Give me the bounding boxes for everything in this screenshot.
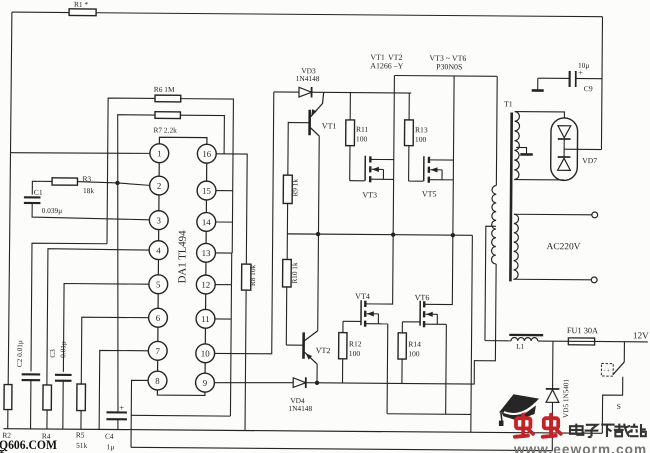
resistor R9: [283, 175, 292, 203]
node bus/VT3-VT4: [391, 232, 395, 236]
transistor VT4 (MOSFET): [361, 300, 393, 327]
wire VT3 gate lead: [350, 180, 365, 182]
IC pin 7: [148, 341, 167, 360]
wire R6 left to line A: [107, 98, 155, 244]
IC pin 2: [150, 176, 169, 195]
svg-text:12V: 12V: [633, 330, 649, 340]
wire pin 13 stub: [215, 252, 232, 254]
IC pin 12: [196, 275, 215, 294]
wire pin 12 stub: [215, 284, 231, 286]
resistor R4: [43, 385, 52, 410]
svg-text:VD7: VD7: [582, 156, 597, 165]
svg-text:0.01μ: 0.01μ: [58, 341, 67, 358]
IC pin 8: [148, 371, 167, 390]
wire left rail down to R2: [8, 12, 12, 384]
resistor R13: [404, 120, 413, 146]
op-amp/PWM IC DA1 TL494 body: [157, 137, 207, 395]
switch S plug symbol: [601, 364, 613, 377]
wire secondary top lead: [514, 213, 592, 216]
node bus/VT1-VT2: [316, 232, 320, 236]
svg-text:14: 14: [202, 217, 211, 227]
svg-text:15: 15: [202, 186, 211, 196]
wire top rail left segment: [12, 11, 69, 13]
wire switch bottom to ground rail: [602, 377, 622, 434]
T1 feedback winding: [514, 112, 519, 180]
svg-text:R1 *: R1 *: [74, 0, 89, 9]
diode VD5: [546, 389, 560, 403]
wire pin 14 stub: [216, 221, 233, 223]
svg-text:VT1: VT1: [322, 122, 337, 131]
watermark partial glyph bottom-left corner: [0, 451, 4, 453]
svg-text:www.eeworm.com: www.eeworm.com: [513, 442, 647, 453]
svg-text:R11: R11: [356, 125, 369, 134]
wire pin1 to left rail: [10, 152, 150, 153]
svg-text:VT5: VT5: [422, 190, 437, 199]
wire secondary bottom lead: [513, 278, 591, 281]
svg-text:11: 11: [201, 314, 210, 324]
ground at T1 tap: [520, 153, 532, 156]
wire VT1 collector slant: [310, 127, 319, 136]
svg-text:VD5 1N5401: VD5 1N5401: [562, 379, 570, 418]
watermark graduation cap: [499, 394, 539, 426]
capacitor C3: [55, 375, 72, 381]
svg-text:R14: R14: [408, 340, 421, 349]
svg-text:2: 2: [157, 181, 161, 191]
IC pin 11: [196, 309, 215, 328]
IC pin 13: [197, 243, 216, 262]
transistor VT2 (PNP): [302, 332, 305, 358]
wire 12V line down to VD5: [552, 341, 554, 389]
wire pins 13-12-11 tie down to rail H: [230, 253, 231, 416]
T1 secondary winding AC220V: [513, 214, 518, 279]
wire R7 right down to pin16 wire: [180, 115, 224, 154]
watermark text dian zi xia zai zhan: [570, 424, 646, 437]
switch S blade: [613, 362, 624, 375]
svg-text:10: 10: [201, 348, 210, 358]
T1 primary winding: [491, 185, 496, 263]
wire pin 6 to R5: [81, 317, 148, 384]
resistor R12: [339, 333, 347, 359]
svg-text:6: 6: [156, 313, 161, 323]
wire VT4 source down: [386, 324, 389, 414]
resistor R2: [4, 385, 12, 410]
transformer T1 core: [510, 113, 511, 282]
svg-text:R5: R5: [76, 430, 85, 439]
wire R2 bottom to ground rail: [7, 410, 9, 429]
wire C2 bottom to ground rail: [30, 380, 32, 429]
inductor L1: [511, 337, 538, 341]
IC pin 10: [196, 344, 215, 363]
wire R8 bottom to ground rail: [245, 290, 246, 430]
ground at C9: [532, 89, 544, 92]
wire center bus down to ground rail: [471, 235, 473, 432]
wire pin 15 stub: [216, 190, 233, 192]
wire R3 to pin 2: [77, 182, 150, 186]
wire C9 ground stem: [537, 78, 539, 89]
wire C9 to right rail: [538, 77, 602, 80]
wire VT1 emitter from VD3 rail: [310, 92, 323, 117]
svg-text:R13: R13: [415, 125, 428, 134]
svg-text:+: +: [119, 404, 124, 413]
wire VT1 collector down to center bus: [317, 136, 320, 234]
svg-text:C2 0.01μ: C2 0.01μ: [15, 340, 24, 367]
wire R10 bottom to VT2 base: [285, 287, 287, 345]
resistor R1: [69, 9, 96, 16]
wire R13 top lead (rail end): [408, 93, 410, 120]
capacitor C9: [570, 71, 576, 87]
wire primary center tap down to L1 feed: [485, 226, 496, 340]
svg-text:C4: C4: [105, 432, 114, 441]
svg-text:1: 1: [157, 148, 161, 158]
VD7 lower diode: [558, 157, 571, 170]
transistor VT1 (PNP): [308, 110, 311, 135]
wire VT6 gate to R14: [402, 321, 420, 323]
wire R14 bottom to VD4 rail: [401, 359, 403, 383]
transistor VT3 (MOSFET): [365, 156, 394, 183]
capacitor C4: [106, 412, 127, 419]
wire VT2 emitter down to VD4 rail: [316, 364, 318, 383]
resistor R8: [242, 264, 251, 290]
svg-text:VT4: VT4: [355, 292, 370, 301]
wire VT1 base down to R9: [287, 122, 289, 175]
wire R3 left to C1: [32, 181, 52, 195]
svg-text:1N4148: 1N4148: [288, 404, 312, 413]
resistor R3: [52, 178, 77, 185]
svg-text:12: 12: [201, 280, 210, 290]
resistor R14: [398, 333, 406, 359]
svg-text:C3: C3: [48, 349, 57, 358]
wire VT3-VT4 vertical: [393, 76, 395, 305]
wire R4 bottom to ground rail: [46, 410, 48, 429]
wire R13 bottom to VT5 gate: [408, 146, 410, 181]
wire pin 10 up to VD3 rail: [215, 92, 274, 354]
wire center bus: [287, 234, 472, 235]
wire feed to L1: [485, 340, 511, 342]
node VD4 rail/VT2: [315, 381, 319, 385]
svg-text:C1: C1: [34, 188, 43, 197]
svg-text:51k: 51k: [76, 441, 87, 450]
IC pin 14: [197, 212, 216, 231]
wire winding bottom to VD7: [514, 179, 564, 181]
resistor R10: [283, 259, 292, 287]
wire R6 right down pins 15-14-13 tie: [179, 99, 233, 253]
svg-text:VT2: VT2: [316, 346, 331, 355]
diode VD3: [299, 87, 312, 98]
wire VT2 emitter: [304, 352, 317, 364]
svg-text:4: 4: [156, 245, 161, 255]
svg-text:0.039μ: 0.039μ: [42, 206, 63, 215]
wire line A R6 to C2 top: [31, 243, 107, 372]
svg-text:13: 13: [202, 248, 211, 258]
node bus/VT5-VT6: [451, 233, 455, 237]
IC pin 9: [196, 373, 215, 392]
svg-text:VT6: VT6: [415, 293, 430, 302]
svg-text:DA1 TL494: DA1 TL494: [176, 230, 188, 284]
resistor R5: [77, 384, 86, 411]
node AC220V terminal top: [592, 212, 598, 218]
svg-text:R7 2.2k: R7 2.2k: [153, 126, 177, 135]
svg-text:3: 3: [157, 215, 162, 225]
svg-text:8: 8: [155, 376, 160, 386]
svg-text:R9 1k: R9 1k: [290, 179, 299, 197]
wire pin 7 to ground rail: [99, 350, 148, 429]
wire R11 bottom to VT3 gate: [349, 146, 351, 181]
wire VD7 center link: [563, 139, 565, 157]
wire winding top to VD7: [515, 112, 565, 118]
node AC220V terminal bottom: [591, 277, 597, 283]
IC pin 1: [150, 144, 169, 163]
wire R14 top lead: [401, 322, 403, 333]
svg-text:7: 7: [156, 346, 161, 356]
wire FU1 to 12V terminal: [595, 340, 648, 342]
svg-text:100: 100: [349, 349, 361, 358]
wire R7 left down to C4 top (pin2 node): [115, 115, 155, 413]
IC pin 16: [197, 144, 216, 163]
diode VD7 (dual, stadium package): [551, 118, 578, 181]
IC pin 3: [149, 211, 168, 230]
IC pin 15: [197, 181, 216, 200]
svg-text:18k: 18k: [83, 186, 94, 195]
svg-text:VT3: VT3: [362, 190, 377, 199]
wire R12 bottom to VD4 rail: [342, 359, 344, 383]
wire L1 to FU1: [538, 340, 568, 342]
wire VT2 base: [286, 344, 303, 346]
wire pin 16 to R8: [215, 154, 247, 264]
wire pin 4 to R4: [47, 249, 149, 386]
svg-text:S: S: [617, 402, 621, 411]
svg-text:Q606.COM: Q606.COM: [0, 437, 57, 452]
wire VD7 tap to right rail: [564, 148, 601, 150]
svg-text:R6 1M: R6 1M: [154, 85, 175, 94]
wire right rail down to VD7 tap: [601, 17, 602, 150]
wire R11 top lead: [349, 93, 351, 120]
wire C4 bottom to ground rail: [117, 419, 119, 429]
wire FET source rail lower: [387, 413, 471, 416]
svg-text:100: 100: [408, 349, 420, 358]
wire pin 5 to C3: [63, 284, 148, 373]
svg-text:1N4148: 1N4148: [296, 74, 320, 83]
svg-text:100: 100: [356, 134, 368, 143]
wire ground rail: [3, 429, 602, 434]
svg-text:R10 1k: R10 1k: [290, 262, 299, 284]
capacitor C1: [24, 197, 41, 203]
wire VT1 base: [288, 122, 309, 124]
svg-text:- +: - +: [603, 368, 609, 374]
svg-text:9: 9: [203, 378, 208, 388]
svg-text:A1266 –Y: A1266 –Y: [370, 61, 403, 70]
wire VT2 collector up to bus: [317, 234, 320, 331]
watermark red characters chong chong: [515, 415, 561, 437]
svg-text:C9: C9: [584, 84, 593, 93]
wire bottom rail to VD5: [131, 447, 552, 450]
wire VT5 gate lead: [409, 180, 424, 182]
resistor R11: [346, 120, 355, 146]
wire pin 11 stub: [215, 318, 231, 320]
wire FET drain rail upper: [394, 75, 496, 78]
svg-text:R8 10k: R8 10k: [248, 264, 257, 286]
wire VT2 collector slant: [304, 331, 317, 341]
wire pin 8 down to bottom rail: [131, 380, 148, 447]
wire C1 bottom to pin 3: [32, 203, 149, 220]
svg-text:AC220V: AC220V: [547, 242, 581, 252]
IC pin 6: [149, 308, 168, 327]
wire VD4 rail to transformer primary bottom: [305, 262, 497, 384]
wire VD3 rail: [274, 92, 411, 93]
wire top rail to right: [96, 13, 602, 17]
svg-text:R3: R3: [82, 174, 91, 183]
wire winding center tap to ground: [516, 147, 526, 153]
svg-text:+: +: [578, 68, 583, 77]
svg-text:1μ: 1μ: [107, 442, 115, 451]
wire VT5-VT6 vertical: [452, 76, 454, 305]
svg-text:5: 5: [156, 279, 161, 289]
wire VT6 source down: [445, 324, 448, 414]
svg-text:L1: L1: [516, 342, 525, 351]
node pin2/R3/R7 junction: [115, 181, 119, 185]
wire 12V down to switch: [623, 342, 625, 362]
wire R12 top lead: [342, 321, 344, 332]
svg-text:R12: R12: [349, 339, 362, 348]
IC pin 4: [149, 241, 168, 260]
wire VD5 bottom to bottom rail: [551, 402, 554, 450]
wire R5 bottom to ground rail: [80, 411, 82, 430]
svg-text:100: 100: [415, 135, 427, 144]
wire VT4 gate to R12: [343, 320, 361, 322]
IC pin 5: [149, 275, 168, 294]
wire pin 9 to VD4: [214, 382, 293, 383]
capacitor C2: [22, 374, 41, 380]
svg-text:T1: T1: [504, 99, 513, 108]
diode VD4: [293, 377, 306, 388]
wire feedback rail H: [131, 414, 230, 417]
VD7 upper diode: [558, 126, 571, 139]
wire C3 bottom to ground rail: [62, 381, 64, 429]
resistor R7: [155, 112, 180, 119]
transistor VT5 (MOSFET): [424, 156, 454, 183]
svg-text:P30N0S: P30N0S: [436, 62, 462, 71]
resistor R6: [155, 95, 181, 102]
inductor L1 core bar: [509, 334, 543, 337]
svg-text:FU1 30A: FU1 30A: [567, 326, 598, 335]
svg-text:16: 16: [202, 149, 211, 159]
fuse FU1: [568, 338, 594, 345]
wire R9 bottom to bus to R10 top: [286, 204, 288, 260]
wire primary top to drain rail: [495, 76, 498, 185]
transistor VT6 (MOSFET): [420, 301, 452, 328]
